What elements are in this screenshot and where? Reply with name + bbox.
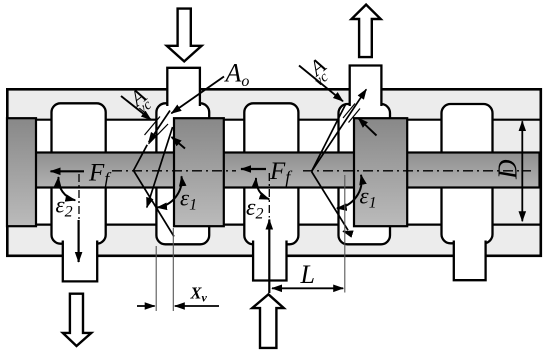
jet line right upper second	[312, 105, 346, 172]
chamber 4	[339, 104, 391, 244]
xv dimension left arrow	[137, 305, 155, 307]
svg-text:D: D	[493, 159, 523, 180]
port P3 bottom left	[63, 241, 97, 282]
extension line L right	[344, 175, 346, 293]
flow arrow chamber1 down	[77, 220, 79, 262]
vena contracta slash 2 left	[149, 124, 169, 144]
leader Avc left	[121, 96, 151, 120]
friction force arrow Ff right	[241, 168, 266, 170]
spool land 3	[354, 118, 407, 226]
small arrow at orifice left	[172, 137, 186, 149]
spool land 2	[174, 118, 224, 226]
jet line left lower	[134, 171, 175, 237]
hollow arrow top outlet	[352, 5, 381, 58]
dimension L	[272, 287, 343, 289]
spool land 1	[7, 118, 36, 226]
friction force arrow Ff left	[51, 170, 85, 172]
extension line xv left	[155, 246, 157, 311]
jet arrow right to port2	[312, 89, 367, 171]
port P1 top supply	[167, 68, 200, 106]
chamber 2	[156, 103, 209, 244]
jet line left upper tail	[134, 145, 148, 171]
xv dimension right arrow	[175, 305, 219, 307]
port P2 top return	[350, 66, 382, 107]
extension line xv right	[172, 228, 174, 311]
angle arc epsilon1 left	[157, 176, 182, 207]
angle arc epsilon1 right	[337, 175, 362, 209]
label Avc left	[123, 83, 155, 118]
jet arrow right lower	[343, 231, 351, 233]
hollow arrow bottom centre	[252, 294, 284, 348]
chamber3 vertical dashdot	[268, 173, 270, 218]
chamber 3	[244, 103, 298, 244]
valve body	[7, 89, 541, 256]
flow arrow chamber3 up	[268, 220, 270, 294]
jet line right lower	[312, 172, 349, 231]
small arrow at orifice right	[358, 118, 376, 135]
chamber1 vertical dashdot	[78, 174, 80, 219]
leader Ao	[171, 77, 224, 114]
label Avc right	[303, 52, 332, 89]
spool shaft	[10, 153, 540, 188]
dimension D	[521, 121, 523, 221]
angle arc epsilon2 left	[58, 177, 75, 200]
hollow arrow bottom left	[63, 294, 92, 346]
vena contracta slash 2 right	[349, 109, 361, 123]
sleeve bore bottom line	[9, 224, 541, 226]
port P5 bottom right	[454, 241, 486, 281]
vena contracta slash 1 right	[343, 104, 355, 119]
hollow arrow top inlet	[167, 9, 202, 62]
sleeve bore top line	[9, 119, 541, 121]
jet line left upper	[149, 111, 170, 143]
chamber 5	[442, 104, 493, 243]
port P4 bottom centre	[253, 241, 286, 281]
leader Avc right	[299, 66, 343, 102]
chamber 1	[52, 103, 106, 243]
jet line left outward	[147, 127, 173, 208]
bore interior	[9, 121, 493, 225]
angle arc epsilon2 right	[256, 178, 269, 199]
centerline axis	[112, 170, 531, 172]
vena contracta slash 1 left	[145, 117, 161, 136]
svg-text:L: L	[300, 260, 315, 289]
